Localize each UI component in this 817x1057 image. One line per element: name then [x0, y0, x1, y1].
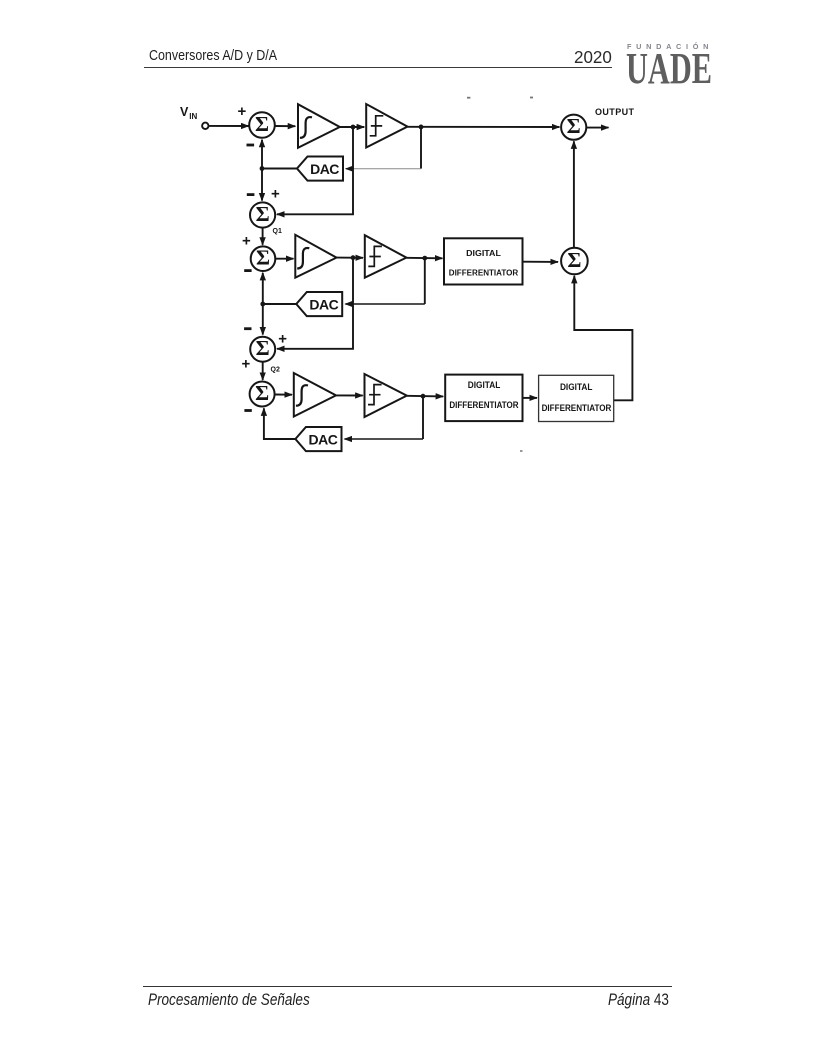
wire down into S2 — [261, 169, 263, 201]
svg-text:DIGITAL: DIGITAL — [560, 382, 593, 392]
summing junction S7 — [561, 248, 588, 275]
svg-text:Σ: Σ — [256, 336, 270, 360]
plus sign S4 — [278, 330, 287, 347]
header rule — [144, 67, 613, 68]
wire input to S1 — [209, 125, 249, 127]
minus sign S1 — [247, 144, 255, 147]
wire K3 to differentiator B2 — [407, 395, 443, 398]
comparator K2 — [365, 235, 407, 278]
node VIN label — [180, 105, 198, 121]
wire S4 down to S5 — [262, 362, 264, 380]
plus sign S3 — [242, 233, 251, 250]
DAC D2 — [296, 292, 342, 316]
wire feedback K1 down — [420, 127, 422, 169]
comparator K1 — [366, 104, 407, 148]
step glyph K2 — [368, 246, 382, 266]
wire B2 to B3 — [523, 397, 538, 399]
wire A1 to comparator K1 — [340, 126, 364, 128]
wire B1 to S7 — [523, 261, 559, 263]
header year 2020 — [574, 47, 612, 68]
summing junction S5 — [250, 382, 275, 407]
integral glyph A1 — [300, 117, 312, 138]
wire DAC1 to junction — [262, 168, 297, 170]
wire S5 to integrator A3 — [275, 394, 292, 396]
svg-text:+: + — [271, 185, 280, 202]
wire up into S1 minus — [261, 140, 263, 169]
wire up into S3 minus — [262, 273, 264, 304]
junction dot DAC2 — [260, 302, 265, 307]
svg-text:DAC: DAC — [309, 297, 338, 313]
junction dot DAC1 — [260, 166, 265, 171]
integrator A3 — [294, 373, 336, 417]
summing junction S1 — [249, 112, 275, 138]
integral glyph A3 — [296, 385, 308, 406]
svg-text:Σ: Σ — [256, 246, 270, 270]
wire A2 to comparator K2 — [337, 257, 364, 259]
differentiator B3 — [539, 375, 614, 421]
differentiator B1 — [444, 238, 523, 284]
svg-text:Σ: Σ — [255, 381, 269, 405]
svg-text:DAC: DAC — [310, 161, 339, 177]
summing junction S4 — [250, 337, 275, 362]
logo FUNDACION — [627, 42, 727, 51]
differentiator B2 — [445, 375, 522, 422]
step glyph K1 — [370, 116, 384, 136]
scan speck 2 — [530, 97, 533, 99]
minus sign S5 — [244, 409, 251, 412]
svg-text:+: + — [238, 103, 247, 120]
svg-text:DIGITAL: DIGITAL — [466, 248, 501, 258]
wire S7 up into S6 — [573, 141, 575, 247]
svg-text:Σ: Σ — [256, 202, 270, 226]
svg-text:+: + — [242, 233, 251, 250]
wire K2 to differentiator B1 — [406, 257, 442, 260]
footer right text — [608, 991, 669, 1010]
wire feedback K2 down — [424, 258, 426, 304]
scan speck 3 — [520, 450, 523, 452]
integrator A1 — [298, 104, 340, 148]
junction dot after A1 — [351, 125, 356, 130]
junction dot after K2 — [422, 256, 427, 261]
input terminal — [202, 123, 208, 129]
svg-text:OUTPUT: OUTPUT — [595, 107, 635, 117]
minus sign S3 — [244, 269, 251, 272]
svg-text:Σ: Σ — [255, 112, 269, 136]
wire DAC3 up into S5 minus — [264, 408, 296, 439]
label Q2 — [271, 367, 280, 374]
plus sign S1 — [238, 103, 247, 120]
logo UADE — [626, 43, 723, 94]
minus sign S2 — [247, 193, 255, 196]
footer left text — [148, 991, 310, 1010]
minus sign S4 — [244, 327, 251, 330]
plus sign S5 — [242, 356, 251, 373]
svg-text:+: + — [278, 330, 287, 347]
wire output arrow — [586, 127, 608, 129]
plus sign S2 — [271, 185, 280, 202]
wire feedback K3 down — [422, 396, 424, 439]
junction dot after K1 — [419, 125, 424, 130]
step glyph K3 — [368, 385, 382, 405]
svg-text:Σ: Σ — [567, 248, 581, 272]
svg-text:V: V — [180, 105, 189, 119]
junction dot after A2 — [351, 255, 356, 260]
scan speck 1 — [467, 97, 470, 99]
wire S2 down to S3 — [262, 228, 264, 245]
wire feedback into DAC1 — [346, 168, 421, 170]
wire A3 to comparator K3 — [336, 394, 363, 396]
svg-text:DAC: DAC — [308, 432, 337, 448]
svg-text:Σ: Σ — [567, 114, 581, 138]
svg-text:+: + — [242, 356, 251, 373]
svg-text:DIGITAL: DIGITAL — [468, 380, 501, 390]
wire down into S4 — [262, 304, 264, 335]
summing junction S2 — [250, 202, 275, 227]
summing junction S6 — [561, 115, 586, 140]
wire K1 to S6 — [408, 126, 560, 128]
wire feedback into DAC2 — [345, 303, 425, 305]
wire S1 to integrator A1 — [275, 125, 295, 127]
svg-text:DIFFERENTIATOR: DIFFERENTIATOR — [542, 403, 612, 413]
footer rule — [143, 986, 672, 987]
junction dot after K3 — [421, 394, 426, 399]
wire S3 to integrator A2 — [275, 258, 293, 260]
DAC D3 — [295, 427, 341, 451]
svg-text:Q2: Q2 — [271, 367, 280, 374]
wire A2 junction down to S4 — [277, 258, 353, 349]
DAC D1 — [297, 157, 343, 181]
wire DAC2 to junction — [263, 303, 297, 305]
integral glyph A2 — [297, 248, 309, 269]
integrator A2 — [295, 235, 336, 278]
OUTPUT label — [595, 107, 635, 117]
header title — [149, 47, 277, 64]
wire A1 junction down to S2 — [277, 127, 353, 214]
summing junction S3 — [251, 246, 276, 271]
label Q1 — [273, 228, 282, 235]
svg-text:DIFFERENTIATOR: DIFFERENTIATOR — [449, 400, 519, 410]
svg-text:DIFFERENTIATOR: DIFFERENTIATOR — [449, 268, 519, 278]
svg-text:Q1: Q1 — [273, 228, 282, 235]
wire feedback into DAC3 — [345, 438, 424, 440]
wire elbow from B3 up into S7 — [574, 276, 632, 401]
svg-text:IN: IN — [189, 112, 197, 121]
comparator K3 — [365, 374, 407, 417]
